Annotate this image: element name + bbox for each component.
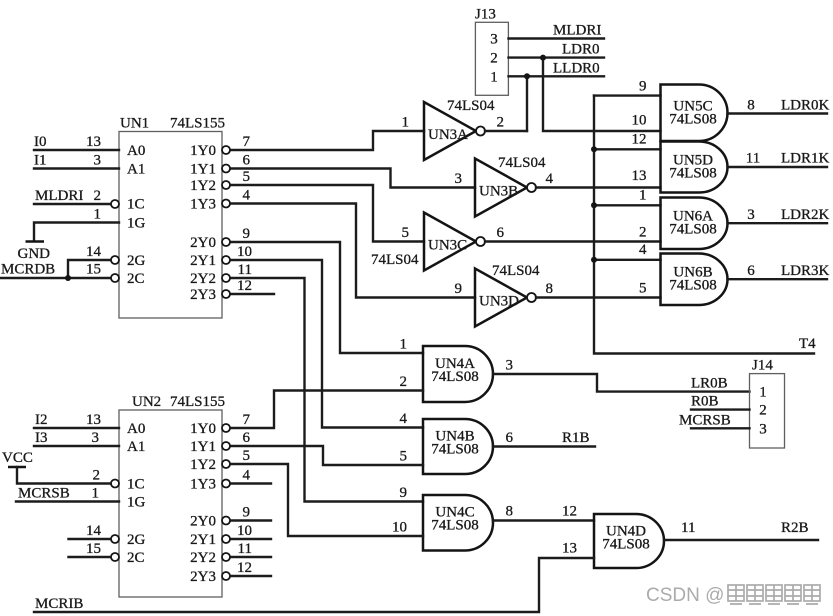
svg-text:74LS04: 74LS04 <box>447 98 495 114</box>
svg-text:74LS08: 74LS08 <box>431 518 479 534</box>
inverter UN3A 74LS04 <box>424 98 495 160</box>
svg-text:7: 7 <box>243 412 251 428</box>
svg-text:1Y1: 1Y1 <box>190 162 216 178</box>
svg-text:LDR1K: LDR1K <box>781 151 830 167</box>
wire J13 pin 2 net LDR0 <box>509 42 605 58</box>
svg-text:3: 3 <box>92 430 100 446</box>
svg-text:J13: J13 <box>475 7 496 23</box>
svg-text:2: 2 <box>639 225 647 241</box>
and-gate UN6B 74LS08 <box>661 254 728 306</box>
svg-text:2: 2 <box>490 51 498 67</box>
power VCC <box>2 450 33 467</box>
and-gate UN4A 74LS08 <box>400 337 494 403</box>
junction MCRDB node <box>65 275 71 281</box>
svg-text:3: 3 <box>506 358 514 374</box>
wire bus to UN5D input 12 <box>594 132 661 150</box>
svg-text:3: 3 <box>455 171 463 187</box>
svg-text:1C: 1C <box>127 197 145 213</box>
wire UN2 1Y2 pin 5 to UN4C input 10 <box>230 448 423 536</box>
wire UN3C output pin 6 to UN6A input 2 <box>402 225 661 242</box>
wire MCRSB to UN2 1G pin 1 <box>16 486 119 502</box>
pin bubble UN1 2G <box>111 256 119 264</box>
svg-text:2: 2 <box>400 374 408 390</box>
junction bus pin 4 <box>591 257 597 263</box>
svg-text:13: 13 <box>562 541 577 557</box>
svg-text:1Y0: 1Y0 <box>190 143 216 159</box>
ground GND <box>18 242 51 263</box>
and-gate UN4C 74LS08 <box>392 485 493 551</box>
pin bubble UN3A output <box>476 127 485 136</box>
svg-text:A0: A0 <box>127 143 145 159</box>
and-gate UN6A 74LS08 <box>661 198 728 250</box>
wire MLDRI to UN1 1C pin 2 <box>34 188 111 204</box>
svg-text:12: 12 <box>632 132 647 148</box>
inverter UN3D 74LS04 <box>475 263 540 327</box>
pin bubble UN2 1C <box>111 480 119 488</box>
and-gate UN4B 74LS08 <box>400 411 493 474</box>
svg-text:13: 13 <box>86 412 101 428</box>
wire UN1 2Y2 pin 11 to UN4C input 9 <box>230 262 423 502</box>
svg-text:74LS04: 74LS04 <box>498 155 546 171</box>
svg-text:74LS08: 74LS08 <box>431 369 479 385</box>
svg-text:R0B: R0B <box>691 394 719 410</box>
wire UN1 1Y3 pin 4 to UN3D input <box>230 188 475 298</box>
svg-text:1: 1 <box>400 337 408 353</box>
svg-text:8: 8 <box>506 504 514 520</box>
svg-text:CSDN @: CSDN @ <box>646 585 724 606</box>
svg-text:I0: I0 <box>34 134 47 150</box>
svg-text:1: 1 <box>94 207 102 223</box>
svg-text:13: 13 <box>632 168 647 184</box>
svg-text:74LS08: 74LS08 <box>669 166 717 182</box>
svg-text:4: 4 <box>546 171 554 187</box>
svg-text:3: 3 <box>759 422 767 438</box>
svg-text:2G: 2G <box>127 532 146 548</box>
svg-text:A0: A0 <box>127 421 145 437</box>
svg-text:11: 11 <box>238 541 252 557</box>
svg-text:1Y2: 1Y2 <box>190 178 216 194</box>
svg-text:5: 5 <box>402 225 410 241</box>
svg-text:MCRIB: MCRIB <box>35 596 83 612</box>
wire UN4B output pin 6 net R1B <box>493 430 595 447</box>
svg-text:5: 5 <box>243 448 251 464</box>
svg-text:2C: 2C <box>127 550 145 566</box>
svg-text:A1: A1 <box>127 162 145 178</box>
svg-text:1Y2: 1Y2 <box>190 457 216 473</box>
svg-text:T4: T4 <box>799 336 816 352</box>
wire UN1 2Y1 pin 10 to UN4B input 4 <box>230 244 423 428</box>
svg-text:15: 15 <box>86 541 101 557</box>
svg-text:6: 6 <box>497 225 505 241</box>
svg-text:UN3A: UN3A <box>428 127 468 143</box>
svg-text:2Y0: 2Y0 <box>190 514 216 530</box>
svg-text:VCC: VCC <box>2 450 33 466</box>
wire UN2 2Y1 pin 10 stub <box>230 523 271 539</box>
svg-text:74LS04: 74LS04 <box>371 252 419 268</box>
svg-text:LDR0K: LDR0K <box>781 98 830 114</box>
svg-text:1G: 1G <box>127 216 146 232</box>
svg-text:MCRSB: MCRSB <box>18 486 70 502</box>
svg-text:I2: I2 <box>35 412 48 428</box>
svg-text:74LS08: 74LS08 <box>669 222 717 238</box>
svg-text:4: 4 <box>639 242 647 258</box>
wire UN6A output pin 3 net LDR2K <box>728 207 830 223</box>
svg-text:3: 3 <box>490 32 498 48</box>
and-gate UN5C 74LS08 <box>661 85 728 142</box>
svg-text:MCRDB: MCRDB <box>1 262 55 278</box>
wire VCC to UN2 1C pin 2 <box>17 467 111 484</box>
svg-text:6: 6 <box>243 153 251 169</box>
svg-text:J14: J14 <box>752 358 773 374</box>
svg-text:1: 1 <box>490 70 498 86</box>
pin bubbles UN2 outputs <box>222 424 230 580</box>
pin bubble UN2 2C <box>111 553 119 561</box>
wire UN3A output pin 2 <box>402 115 528 132</box>
wire UN1 input I0 pin 13 <box>34 134 119 150</box>
svg-text:2Y3: 2Y3 <box>190 287 216 303</box>
svg-text:12: 12 <box>237 278 252 294</box>
pin bubble UN2 2G <box>111 535 119 543</box>
junction LDR0 <box>540 55 546 61</box>
svg-text:1: 1 <box>92 486 100 502</box>
wire J13 pin 3 net MLDRI <box>509 23 605 39</box>
and-gate UN5D 74LS08 <box>661 142 728 193</box>
inverter UN3B 74LS04 <box>475 155 546 217</box>
svg-text:10: 10 <box>237 523 252 539</box>
svg-text:74LS08: 74LS08 <box>431 442 479 458</box>
wire UN5C output pin 8 net LDR0K <box>728 98 830 114</box>
svg-text:1C: 1C <box>127 477 145 493</box>
wire UN2 1Y0 pin 7 to UN4A input 2 <box>230 391 423 429</box>
IC UN2 74LS155 <box>119 394 225 597</box>
junction bus pin 1 <box>591 202 597 208</box>
svg-text:5: 5 <box>639 281 647 297</box>
wire UN1 2Y0 pin 9 to UN4A input 1 <box>230 226 423 353</box>
svg-text:10: 10 <box>237 244 252 260</box>
svg-text:LDR3K: LDR3K <box>781 263 830 279</box>
svg-text:I1: I1 <box>34 153 47 169</box>
svg-text:MLDRI: MLDRI <box>553 23 601 39</box>
wire bus to UN6A input 1 <box>594 188 661 206</box>
pin bubble UN3B output <box>527 183 536 192</box>
svg-text:15: 15 <box>86 262 101 278</box>
wire bus to UN5C input 9 <box>594 79 661 96</box>
svg-text:10: 10 <box>632 113 647 129</box>
wire UN2 input I2 pin 13 <box>34 412 119 428</box>
svg-text:LLDR0: LLDR0 <box>553 61 600 77</box>
wire LDR0 down to UN5C input 10 <box>543 58 661 131</box>
wire UN2 input I3 pin 3 <box>34 430 119 446</box>
svg-text:MLDRI: MLDRI <box>35 188 83 204</box>
svg-text:R2B: R2B <box>781 520 809 536</box>
svg-text:UN2: UN2 <box>132 394 161 410</box>
svg-text:12: 12 <box>237 560 252 576</box>
svg-text:2: 2 <box>759 403 767 419</box>
svg-text:2C: 2C <box>127 271 145 287</box>
svg-text:I3: I3 <box>35 430 48 446</box>
wire J13 pin 1 net LLDR0 <box>509 61 605 77</box>
svg-text:UN3D: UN3D <box>479 294 519 310</box>
svg-text:13: 13 <box>86 134 101 150</box>
svg-text:74LS08: 74LS08 <box>669 112 717 128</box>
svg-text:9: 9 <box>455 281 463 297</box>
wire bus to UN6B input 4 <box>594 242 661 260</box>
svg-text:2Y1: 2Y1 <box>190 532 216 548</box>
svg-text:UN3C: UN3C <box>428 238 467 254</box>
wire UN3B output pin 4 to UN5D input 13 <box>455 171 661 188</box>
pin bubble UN1 2C <box>111 274 119 282</box>
svg-text:1Y1: 1Y1 <box>190 439 216 455</box>
svg-text:1: 1 <box>639 188 647 204</box>
svg-text:74LS08: 74LS08 <box>669 278 717 294</box>
svg-text:74LS08: 74LS08 <box>602 537 650 553</box>
wire UN2 2Y0 pin 9 stub <box>230 505 271 521</box>
inverter UN3C 74LS04 <box>371 213 476 271</box>
svg-text:R1B: R1B <box>562 430 590 446</box>
wire UN4D output pin 11 net R2B <box>664 520 818 540</box>
wire bus vertical T4 net <box>594 96 814 354</box>
wire UN1 1Y0 pin 7 to UN3A input <box>230 131 424 150</box>
wire MCRDB to UN1 2C pin 15 <box>1 262 111 279</box>
svg-text:9: 9 <box>243 505 251 521</box>
pin bubbles UN1 outputs <box>222 146 230 298</box>
svg-text:12: 12 <box>562 504 577 520</box>
svg-text:LDR2K: LDR2K <box>781 207 830 223</box>
svg-text:1Y0: 1Y0 <box>190 421 216 437</box>
wire UN3D output pin 8 to UN6B input 5 <box>455 281 661 298</box>
and-gate UN4D 74LS08 <box>562 514 664 568</box>
svg-text:1: 1 <box>402 115 410 131</box>
svg-text:11: 11 <box>681 520 695 536</box>
svg-text:6: 6 <box>243 430 251 446</box>
svg-text:14: 14 <box>86 523 102 539</box>
svg-text:2Y1: 2Y1 <box>190 253 216 269</box>
wire UN1 1Y1 pin 6 to UN3B input <box>230 153 475 188</box>
svg-text:A1: A1 <box>127 439 145 455</box>
svg-text:1Y3: 1Y3 <box>190 477 216 493</box>
wire MCRSB to J14 pin 3 <box>679 413 750 429</box>
wire UN2 2G pin 14 stub <box>69 523 112 539</box>
svg-text:1: 1 <box>759 385 767 401</box>
svg-text:2Y0: 2Y0 <box>190 235 216 251</box>
wire UN1 1Y2 pin 5 to UN3C input <box>230 169 424 242</box>
wire R0B to J14 pin 2 <box>691 394 750 410</box>
svg-text:6: 6 <box>747 263 755 279</box>
svg-text:2: 2 <box>94 188 102 204</box>
svg-text:5: 5 <box>243 169 251 185</box>
svg-text:2G: 2G <box>127 253 146 269</box>
svg-text:1Y3: 1Y3 <box>190 197 216 213</box>
svg-text:7: 7 <box>243 134 251 150</box>
connector J14 <box>750 358 785 449</box>
wire UN5D output pin 11 net LDR1K <box>728 151 830 168</box>
wire LLDR0 down to UN3A output <box>526 76 528 131</box>
svg-text:11: 11 <box>238 262 252 278</box>
svg-text:6: 6 <box>506 430 514 446</box>
svg-text:2: 2 <box>93 468 101 484</box>
svg-text:9: 9 <box>639 79 647 95</box>
svg-text:4: 4 <box>243 188 251 204</box>
watermark CSDN <box>646 585 820 606</box>
svg-text:10: 10 <box>392 520 407 536</box>
wire MCRIB to UN4D input 13 <box>34 558 594 612</box>
svg-text:9: 9 <box>243 226 251 242</box>
svg-text:11: 11 <box>746 151 760 167</box>
svg-text:2: 2 <box>497 115 505 131</box>
svg-text:3: 3 <box>747 207 755 223</box>
IC UN1 74LS155 <box>119 116 225 319</box>
svg-text:4: 4 <box>400 411 408 427</box>
svg-text:LR0B: LR0B <box>691 376 728 392</box>
wire UN2 2Y2 pin 11 stub <box>230 541 271 557</box>
wire UN4A output pin 3 net LR0B to J14 pin 1 <box>493 358 750 392</box>
wire GND to UN1 1G pin 1 <box>34 207 119 242</box>
wire UN6B output pin 6 net LDR3K <box>728 263 830 279</box>
wire UN2 2Y3 pin 12 stub <box>230 560 271 576</box>
svg-text:74LS04: 74LS04 <box>492 263 540 279</box>
svg-text:LDR0: LDR0 <box>562 42 600 58</box>
svg-text:UN1: UN1 <box>120 116 149 132</box>
svg-text:UN3B: UN3B <box>479 184 518 200</box>
svg-text:MCRSB: MCRSB <box>679 413 731 429</box>
junction bus pin 12 <box>591 146 597 152</box>
wire UN2 2C pin 15 stub <box>69 541 112 557</box>
pin bubble UN3D output <box>527 293 536 302</box>
svg-text:4: 4 <box>243 468 251 484</box>
wire UN2 1Y1 pin 6 to UN4B input 5 <box>230 430 423 465</box>
svg-text:9: 9 <box>400 485 408 501</box>
svg-text:3: 3 <box>94 153 102 169</box>
junction LLDR0 <box>524 73 530 79</box>
wire UN1 2G pin 14 <box>68 244 111 278</box>
svg-text:5: 5 <box>400 449 408 465</box>
svg-text:GND: GND <box>18 246 51 262</box>
wire UN1 2Y3 pin 12 stub <box>230 278 274 294</box>
connector J13 <box>475 7 508 96</box>
pin bubble UN1 1C <box>111 200 119 208</box>
svg-text:74LS155: 74LS155 <box>170 394 225 410</box>
svg-text:2Y3: 2Y3 <box>190 569 216 585</box>
svg-text:74LS155: 74LS155 <box>170 116 225 132</box>
svg-text:8: 8 <box>546 281 554 297</box>
svg-text:2Y2: 2Y2 <box>190 271 216 287</box>
svg-text:2Y2: 2Y2 <box>190 550 216 566</box>
svg-text:8: 8 <box>747 98 755 114</box>
pin bubble UN3C output <box>476 237 485 246</box>
wire UN2 1Y3 pin 4 stub <box>230 468 271 484</box>
svg-text:1G: 1G <box>127 495 146 511</box>
wire UN4C output pin 8 to UN4D input 12 <box>493 504 594 521</box>
svg-text:14: 14 <box>86 244 102 260</box>
wire UN1 input I1 pin 3 <box>34 153 119 169</box>
